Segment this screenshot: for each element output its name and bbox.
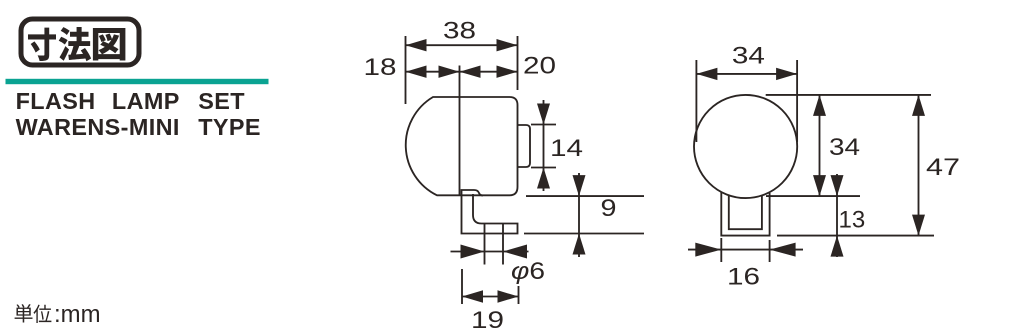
side view: center extension + lens seam line bbox=[459, 66, 461, 196]
unit note 単位:mm bbox=[15, 301, 101, 328]
title line 2: WARENS-MINI TYPE bbox=[16, 114, 261, 140]
svg-text:16: 16 bbox=[727, 264, 760, 291]
dim 19 left tick bbox=[461, 269, 463, 304]
svg-text:FLASH: FLASH bbox=[16, 88, 96, 114]
front 34 left extension bbox=[695, 60, 697, 142]
dim 18/20 line bbox=[406, 66, 518, 78]
dim 19 right tick bbox=[518, 286, 520, 304]
dim 47 line bbox=[912, 95, 925, 236]
dim 16 line bbox=[688, 243, 803, 257]
front view: lamp circle bbox=[694, 95, 797, 198]
tab bottom extension line bbox=[531, 167, 556, 169]
svg-text:SET: SET bbox=[198, 88, 245, 114]
stem right line bbox=[502, 224, 504, 265]
title line 1: FLASH LAMP SET bbox=[16, 88, 246, 114]
badge text 寸法図 bbox=[28, 27, 125, 61]
teal rule bbox=[6, 79, 269, 84]
svg-text:LAMP: LAMP bbox=[112, 88, 180, 114]
dim 16 left tick bbox=[720, 238, 722, 262]
svg-text:WARENS-MINI: WARENS-MINI bbox=[16, 114, 180, 140]
front view: base outer bbox=[721, 192, 769, 236]
circle bottom extension line bbox=[766, 195, 860, 197]
svg-text:34: 34 bbox=[732, 43, 765, 70]
dim 13 line bbox=[831, 174, 844, 257]
dim 38 line bbox=[406, 39, 518, 51]
svg-text:19: 19 bbox=[471, 307, 504, 333]
bracket outline bbox=[462, 190, 518, 234]
svg-text:47: 47 bbox=[926, 154, 960, 181]
svg-text:20: 20 bbox=[523, 53, 556, 80]
svg-text:18: 18 bbox=[364, 54, 397, 81]
svg-text::mm: :mm bbox=[54, 301, 101, 328]
svg-text:38: 38 bbox=[443, 18, 476, 45]
tab top extension line bbox=[531, 124, 556, 126]
svg-text:φ6: φ6 bbox=[511, 258, 545, 285]
foot bottom extension line bbox=[524, 233, 644, 235]
front view: base inner channel bbox=[729, 195, 762, 229]
dim 14 line bbox=[537, 100, 550, 191]
lamp body outline bbox=[406, 97, 518, 195]
circle top extension line bbox=[766, 94, 931, 96]
svg-text:34: 34 bbox=[829, 134, 860, 161]
side view: right extension line bbox=[517, 36, 519, 90]
lamp mount tab (side) bbox=[518, 125, 531, 167]
base bottom extension line bbox=[777, 235, 934, 237]
svg-text:14: 14 bbox=[550, 135, 583, 162]
dim 34 vertical line bbox=[813, 95, 826, 196]
side view: left extension line bbox=[405, 36, 407, 104]
dim 9 line bbox=[573, 173, 586, 257]
svg-text:13: 13 bbox=[839, 207, 866, 234]
dim phi6 line bbox=[451, 245, 529, 259]
svg-text:9: 9 bbox=[601, 195, 617, 222]
stem left line bbox=[484, 224, 486, 265]
dim 16 right tick bbox=[769, 240, 771, 262]
bracket hook curve bbox=[474, 190, 483, 196]
body bottom extension line bbox=[526, 195, 644, 197]
badge 寸法図 frame bbox=[21, 19, 139, 65]
dim 34 top line bbox=[696, 68, 797, 80]
front 34 right extension bbox=[796, 60, 798, 142]
svg-text:TYPE: TYPE bbox=[198, 114, 261, 140]
dim 19 line bbox=[462, 290, 519, 302]
